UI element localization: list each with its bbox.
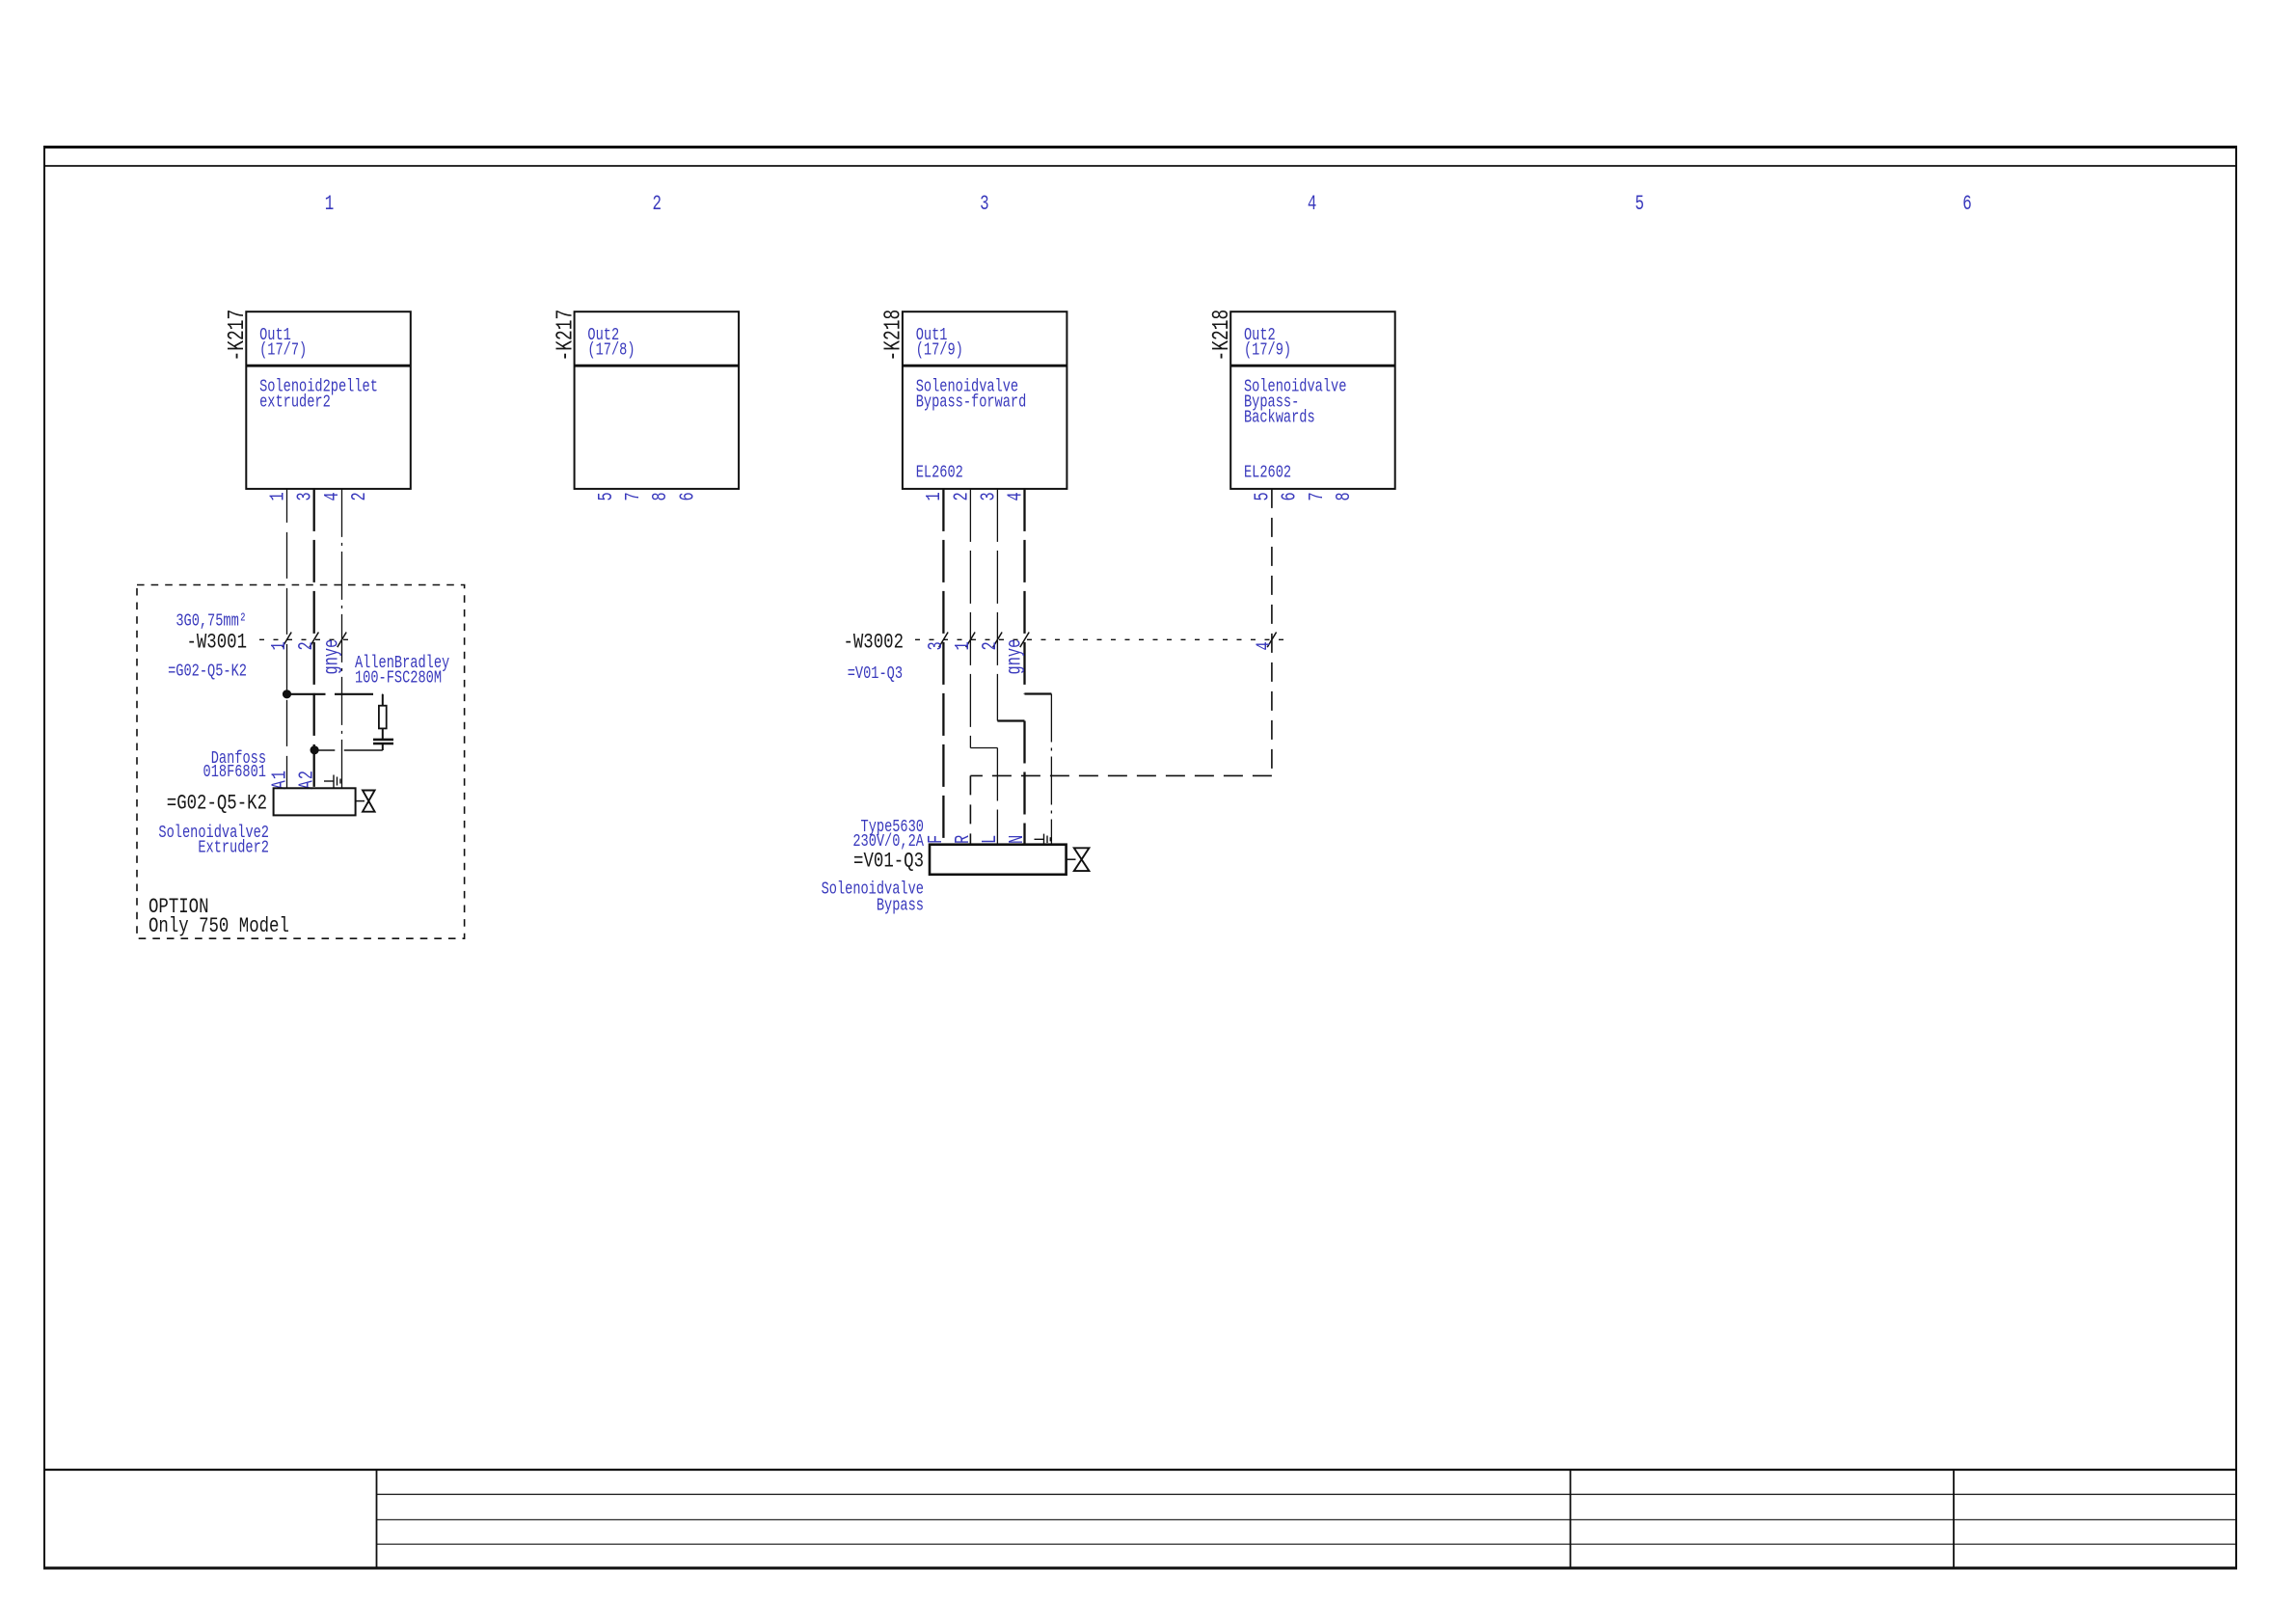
svg-text:5: 5 xyxy=(1251,492,1274,501)
svg-text:-K218: -K218 xyxy=(1209,310,1235,362)
wire K218:4 gnye jog xyxy=(1025,692,1052,694)
OPTION dashed enclosure xyxy=(137,585,465,939)
relay output block -K218 Out1 box (block 3) xyxy=(903,311,1067,489)
svg-text:4: 4 xyxy=(1253,641,1276,650)
svg-text:2: 2 xyxy=(979,641,1002,650)
wire K217:3 to valve A2 xyxy=(313,489,315,788)
svg-text:3G0,75mm²: 3G0,75mm² xyxy=(176,611,247,631)
frame border right line xyxy=(2235,146,2237,1569)
relay output block -K217 Out2 box (block 2) xyxy=(575,311,740,489)
relay output block -K218 Out2 box (block 4) xyxy=(1230,311,1395,489)
wire K218:3 jog to N xyxy=(997,719,1024,721)
svg-text:A2: A2 xyxy=(296,770,319,790)
svg-text:1: 1 xyxy=(325,192,335,216)
svg-text:7: 7 xyxy=(622,492,645,501)
title block row line 3 xyxy=(377,1543,2237,1545)
cable W3002 definition line xyxy=(915,638,1283,640)
svg-text:L: L xyxy=(979,835,1002,844)
snubber top connection line xyxy=(287,693,383,695)
svg-text:-K217: -K217 xyxy=(553,310,579,362)
svg-text:(17/8): (17/8) xyxy=(587,340,635,360)
svg-text:Bypass: Bypass xyxy=(877,896,924,915)
svg-text:Bypass-forward: Bypass-forward xyxy=(916,392,1027,412)
wire K218 Out2 pin5 vertical segment xyxy=(1271,489,1273,776)
svg-text:-K217: -K217 xyxy=(225,310,251,362)
svg-text:7: 7 xyxy=(1306,492,1329,501)
svg-text:-K218: -K218 xyxy=(880,310,906,362)
svg-text:1: 1 xyxy=(952,641,975,650)
suppressor brand AllenBradley 100-FSC280M xyxy=(355,653,449,688)
capacitor lead bottom xyxy=(382,744,384,750)
description Solenoidvalve2 Extruder2 xyxy=(158,823,269,857)
svg-text:gnye: gnye xyxy=(1003,639,1026,675)
snubber bottom connection line xyxy=(314,749,383,751)
svg-text:=G02-Q5-K2: =G02-Q5-K2 xyxy=(167,791,267,816)
type text Type5630 230V/0,2A xyxy=(852,817,924,851)
wire K218:1 to valve F xyxy=(942,489,944,845)
svg-text:A1: A1 xyxy=(268,770,291,790)
svg-text:4: 4 xyxy=(321,492,344,501)
valve terminal PE symbol (right valve) xyxy=(1035,834,1051,845)
svg-text:230V/0,2A: 230V/0,2A xyxy=(852,831,924,851)
OPTION note text xyxy=(149,895,289,939)
wire K218:2 jog to L xyxy=(970,747,997,749)
svg-text:5: 5 xyxy=(1635,192,1645,216)
capacitor C (suppressor) xyxy=(373,740,393,744)
block 3 description Solenoidvalve Bypass-forward xyxy=(916,377,1027,412)
title block row line 1 xyxy=(377,1494,2237,1496)
description Solenoidvalve Bypass xyxy=(822,880,924,915)
block 1 function text Out1 (17/7) xyxy=(259,325,307,360)
frame border second top line xyxy=(43,165,2237,167)
svg-text:6: 6 xyxy=(676,492,699,501)
svg-text:1: 1 xyxy=(266,492,289,501)
solenoid valve coil G02-Q5-K2 body xyxy=(274,788,356,815)
svg-text:6: 6 xyxy=(1278,492,1301,501)
cable W3002 slash conductor gnye xyxy=(1020,633,1029,648)
frame border left line xyxy=(43,146,45,1569)
svg-text:8: 8 xyxy=(649,492,672,501)
svg-text:Only 750 Model: Only 750 Model xyxy=(149,914,289,939)
wire K218:3 lower segment to valve N xyxy=(1023,721,1025,845)
title block divider x390 xyxy=(376,1470,378,1568)
svg-text:2: 2 xyxy=(950,492,973,501)
svg-text:-W3002: -W3002 xyxy=(843,631,904,656)
block 1 description Solenoid2pellet extruder2 xyxy=(259,377,378,412)
svg-text:6: 6 xyxy=(1962,192,1972,216)
snubber resistor lead top xyxy=(382,694,384,706)
title block divider x2026 xyxy=(1953,1470,1955,1568)
svg-text:=V01-Q3: =V01-Q3 xyxy=(848,663,903,683)
valve bowtie symbol (right valve) xyxy=(1074,848,1090,871)
wire K218:2 upper segment xyxy=(969,489,971,748)
block 3 function text Out1 (17/9) xyxy=(916,325,963,360)
block 2 function text Out2 (17/8) xyxy=(587,325,635,360)
cable W3001 definition line xyxy=(259,638,354,640)
svg-text:gnye: gnye xyxy=(320,639,343,675)
svg-text:3: 3 xyxy=(925,641,948,650)
svg-text:Extruder2: Extruder2 xyxy=(198,838,269,857)
cable W3002 slash conductor 4 xyxy=(1267,633,1276,648)
valve symbol connector (left valve) xyxy=(356,800,365,802)
resistor to capacitor lead xyxy=(382,728,384,740)
junction node on wire 2 xyxy=(311,745,319,754)
cable W3001 slash conductor gnye xyxy=(338,633,346,648)
svg-text:=V01-Q3: =V01-Q3 xyxy=(853,849,924,874)
valve coil terminal PE symbol xyxy=(324,775,340,788)
svg-text:extruder2: extruder2 xyxy=(259,392,331,412)
cable W3002 slash conductor 3 xyxy=(939,633,948,648)
svg-text:5: 5 xyxy=(595,492,618,501)
title block row line 2 xyxy=(377,1519,2237,1521)
wire pin5 drop to valve R xyxy=(969,775,971,844)
wire pin5 horizontal run to R xyxy=(970,774,1272,776)
wire K217:1 to valve A1 xyxy=(286,489,288,788)
svg-text:(17/7): (17/7) xyxy=(259,340,307,360)
wire K218:3 upper segment xyxy=(996,489,998,721)
svg-text:1: 1 xyxy=(268,641,291,650)
valve bowtie symbol (left valve) xyxy=(363,791,375,812)
svg-text:2: 2 xyxy=(348,492,371,501)
cable W3001 slash conductor 1 xyxy=(283,633,291,648)
cable W3002 slash conductor 1 xyxy=(966,633,975,648)
supplier text Danfoss 018F6801 xyxy=(203,748,266,781)
svg-text:EL2602: EL2602 xyxy=(916,463,963,482)
svg-text:N: N xyxy=(1006,835,1029,844)
svg-text:R: R xyxy=(952,835,975,844)
svg-text:2: 2 xyxy=(652,192,662,216)
cable W3002 slash conductor 2 xyxy=(993,633,1002,648)
svg-text:2: 2 xyxy=(295,641,318,650)
svg-text:-W3001: -W3001 xyxy=(186,631,247,656)
relay output block -K217 Out1 box (block 1) xyxy=(246,311,410,489)
resistor R (suppressor) xyxy=(379,706,387,729)
title block bottom line xyxy=(43,1567,2237,1570)
svg-text:018F6801: 018F6801 xyxy=(203,762,266,781)
title block top line xyxy=(43,1469,2237,1471)
svg-text:3: 3 xyxy=(980,192,989,216)
wire gnye lower segment to valve PE xyxy=(1050,694,1052,845)
svg-text:Backwards: Backwards xyxy=(1244,408,1315,427)
svg-text:(17/9): (17/9) xyxy=(1244,340,1291,360)
wire K217:4 gnye to valve PE xyxy=(341,489,343,788)
svg-text:EL2602: EL2602 xyxy=(1244,463,1291,482)
svg-text:F: F xyxy=(925,835,948,844)
title block divider x1628 xyxy=(1570,1470,1572,1568)
block 4 function text Out2 (17/9) xyxy=(1244,325,1291,360)
svg-text:4: 4 xyxy=(1308,192,1317,216)
svg-text:=G02-Q5-K2: =G02-Q5-K2 xyxy=(168,662,247,681)
frame border top line xyxy=(43,146,2237,149)
svg-text:100-FSC280M: 100-FSC280M xyxy=(355,668,442,688)
svg-text:8: 8 xyxy=(1333,492,1356,501)
svg-text:(17/9): (17/9) xyxy=(916,340,963,360)
junction node on wire 1 xyxy=(283,690,291,698)
block 4 description Solenoidvalve Bypass- Backwards xyxy=(1244,377,1346,427)
wire K218:2 lower segment to valve L xyxy=(996,748,998,845)
cable W3001 slash conductor 2 xyxy=(310,633,318,648)
wire K218:4 gnye upper segment xyxy=(1023,489,1025,694)
solenoid valve V01-Q3 body xyxy=(930,845,1067,875)
valve symbol connector (right valve) xyxy=(1067,858,1076,860)
